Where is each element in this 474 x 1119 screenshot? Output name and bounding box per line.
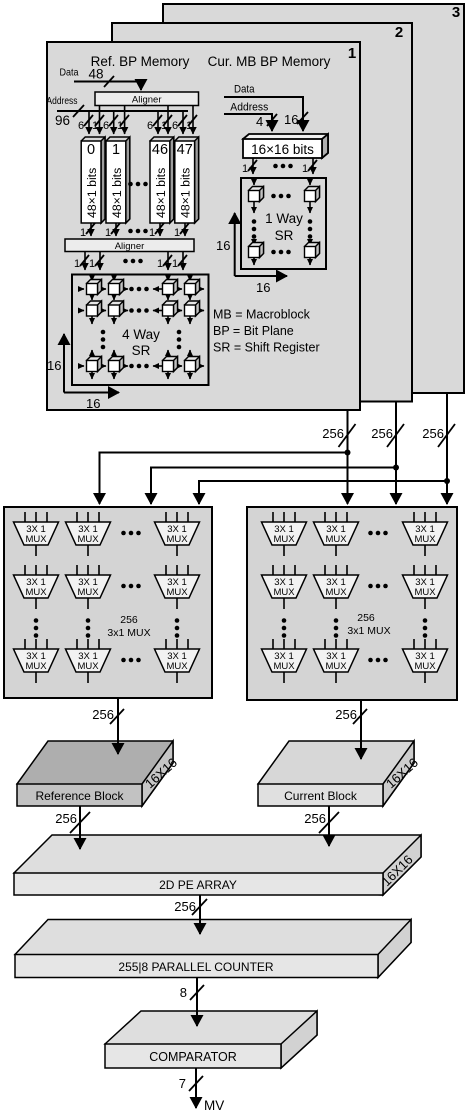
wire address to 16x16 bits [224, 114, 277, 131]
svg-text:1: 1 [117, 120, 123, 132]
svg-text:96: 96 [55, 113, 70, 128]
2D PE ARRAY [14, 835, 421, 895]
COMPARATOR [105, 1011, 317, 1068]
svg-text:SR: SR [275, 228, 294, 243]
wire mem46 out (1) [149, 223, 164, 239]
svg-text:1: 1 [174, 227, 180, 239]
svg-text:1: 1 [302, 163, 308, 175]
SR4 row3 up wires [92, 350, 190, 357]
dots L3 [121, 658, 141, 663]
dots L col2 [86, 618, 91, 638]
memory 16x16 bits [243, 134, 328, 158]
dots SR4 vertical [101, 330, 106, 350]
svg-text:Data: Data [60, 68, 79, 79]
svg-text:2: 2 [395, 24, 403, 41]
svg-text:1: 1 [112, 142, 120, 158]
memory M1 48x1 bits [106, 137, 130, 223]
svg-text:0: 0 [87, 142, 95, 158]
mux L33 [155, 639, 200, 683]
aligner U2 [65, 239, 194, 252]
svg-text:Address: Address [47, 95, 78, 107]
SR4 row1 cubes [87, 280, 200, 295]
dots 16x16 outputs [273, 164, 293, 169]
svg-text:1 Way: 1 Way [265, 211, 303, 226]
svg-text:256: 256 [55, 811, 77, 826]
wire addr to mem0 (6) [78, 111, 93, 134]
wire pe array out 256 [174, 895, 207, 934]
wire addr to mem46 (6) [147, 111, 162, 134]
svg-text:4 Way: 4 Way [122, 327, 160, 342]
svg-text:BP = Bit Plane: BP = Bit Plane [213, 324, 294, 338]
dots between aligner2 outputs [123, 259, 143, 264]
wire aligner2 out a (1) [74, 252, 89, 271]
axis 16 vertical (left SR) [47, 334, 64, 393]
bus panel3 256 [422, 393, 455, 504]
svg-text:1: 1 [157, 258, 163, 270]
dots L2 [121, 584, 141, 589]
wire data to 16x16 bits [224, 97, 308, 131]
wire comparator out 7 to MV [179, 1068, 203, 1108]
svg-text:6: 6 [78, 120, 84, 132]
dots SR1 row1 [271, 194, 291, 199]
svg-text:16: 16 [86, 396, 100, 411]
svg-text:Ref. BP Memory: Ref. BP Memory [91, 54, 190, 69]
svg-text:MB = Macroblock: MB = Macroblock [213, 308, 311, 322]
mux R23 [403, 565, 448, 609]
wire branch bus2 to left mux [151, 468, 396, 505]
junction bus2 [393, 465, 399, 471]
wire addr to mem47 (6) [172, 111, 187, 134]
axis 16 horizontal (left SR) [64, 393, 119, 412]
dots R1 [368, 531, 388, 536]
svg-text:256: 256 [322, 426, 344, 441]
svg-text:1: 1 [149, 227, 155, 239]
wire aligner2 out d (1) [172, 252, 187, 271]
axis 16 horizontal (right SR) [235, 276, 287, 295]
left mux array box [4, 507, 212, 698]
svg-text:1: 1 [161, 120, 167, 132]
Current Block [258, 741, 421, 806]
svg-text:1: 1 [89, 258, 95, 270]
svg-text:6: 6 [172, 120, 178, 132]
svg-text:1: 1 [172, 258, 178, 270]
SR4 row2 down wires [92, 316, 190, 324]
mux L21 [14, 565, 59, 609]
wire aligner to mem0 (1) [92, 106, 104, 135]
wire right mux out 256 [335, 700, 367, 759]
dots between mem outputs [128, 229, 148, 234]
svg-text:48×1 bits: 48×1 bits [85, 168, 99, 218]
1 Way SR box [241, 178, 326, 269]
mux R33 [403, 639, 448, 683]
aligner U1 [95, 92, 199, 106]
svg-text:1: 1 [242, 163, 248, 175]
dots L col1 [34, 618, 39, 638]
svg-text:3: 3 [452, 4, 460, 21]
svg-text:Reference Block: Reference Block [35, 789, 124, 803]
svg-text:3x1 MUX: 3x1 MUX [107, 627, 150, 639]
wire aligner2 out b (1) [89, 252, 104, 271]
svg-text:48: 48 [89, 67, 104, 82]
255|8 PARALLEL COUNTER [15, 920, 411, 978]
svg-text:Aligner: Aligner [115, 241, 145, 252]
dots SR1 row2 [271, 250, 291, 255]
svg-text:46: 46 [152, 142, 168, 158]
SR4 row1 horizontal wires [78, 288, 204, 290]
Reference Block [17, 741, 180, 806]
SR4 row3 down wires [92, 372, 190, 380]
svg-text:Current Block: Current Block [284, 789, 358, 803]
SR4 row3 horizontal wires [78, 365, 204, 367]
svg-text:256: 256 [304, 811, 326, 826]
panel 3 [163, 4, 464, 393]
wire cur block out 256 [304, 806, 339, 846]
svg-text:256: 256 [92, 707, 114, 722]
svg-text:256: 256 [422, 426, 444, 441]
wire aligner to mem1 (1) [117, 106, 129, 135]
wire data to aligner A1 [74, 76, 141, 90]
mux L22 [66, 565, 111, 609]
SR4 row2 horizontal wires [78, 310, 204, 312]
svg-text:1: 1 [105, 227, 111, 239]
svg-text:256: 256 [357, 612, 375, 624]
panel 1 [47, 42, 360, 410]
panel 2 [112, 23, 412, 402]
svg-text:1: 1 [92, 120, 98, 132]
mux R32 [314, 639, 359, 683]
wire aligner to mem47 (1) [186, 106, 197, 135]
dots R3 [368, 658, 388, 663]
wire mem47 out (1) [174, 223, 189, 239]
right mux array box [247, 507, 457, 700]
svg-text:16: 16 [256, 280, 270, 295]
wire aligner to mem46 (1) [161, 106, 172, 135]
wire branch bus1 to left mux [100, 453, 348, 505]
wire aligner2 out c (1) [157, 252, 172, 271]
dots R2 [368, 584, 388, 589]
legend MB BP SR [213, 308, 320, 355]
SR1 row2 feed wires [254, 240, 310, 245]
mux L23 [155, 565, 200, 609]
dots SR1 vertical [252, 219, 257, 239]
svg-text:16: 16 [47, 358, 61, 373]
svg-text:6: 6 [147, 120, 153, 132]
mux L12 [66, 512, 111, 556]
svg-text:1: 1 [80, 227, 86, 239]
mux R22 [314, 565, 359, 609]
memory M47 48x1 bits [175, 137, 199, 223]
svg-text:SR: SR [132, 343, 151, 358]
wire mem0 out (1) [80, 223, 95, 239]
svg-text:48×1 bits: 48×1 bits [179, 168, 193, 218]
memory M46 48x1 bits [150, 137, 174, 223]
dots L1 [121, 531, 141, 536]
svg-text:MV: MV [204, 1098, 224, 1113]
SR1 feed wires [254, 178, 310, 185]
dots SR4 row2 [129, 308, 149, 313]
4 Way SR box [72, 275, 209, 386]
mux L32 [66, 639, 111, 683]
svg-text:1: 1 [74, 258, 80, 270]
wire mem1 out (1) [105, 223, 120, 239]
wire counter out 8 [180, 978, 204, 1027]
svg-text:SR = Shift Register: SR = Shift Register [213, 341, 320, 355]
junction bus1 [345, 450, 351, 456]
SR4 row1-2 vertical wires [92, 295, 190, 301]
bus panel2 256 [371, 402, 404, 505]
svg-text:4: 4 [256, 114, 263, 129]
svg-text:16×16 bits: 16×16 bits [251, 142, 314, 157]
dots R col3 [423, 618, 428, 638]
mux L11 [14, 512, 59, 556]
svg-text:256: 256 [335, 707, 357, 722]
wire address bus [57, 105, 188, 117]
svg-text:Cur. MB BP Memory: Cur. MB BP Memory [208, 54, 331, 69]
SR1 row2 down wires [254, 258, 310, 266]
dots R col1 [282, 618, 287, 638]
svg-text:Data: Data [234, 84, 255, 96]
memory M0 48x1 bits [81, 137, 105, 223]
wire left mux out 256 [92, 698, 124, 754]
SR1 row2 cubes [249, 243, 320, 258]
svg-text:6: 6 [103, 120, 109, 132]
mux R13 [403, 512, 448, 556]
svg-text:256: 256 [120, 614, 138, 626]
svg-text:7: 7 [179, 1076, 186, 1091]
svg-text:Aligner: Aligner [132, 95, 162, 106]
SR1 row1 cubes [249, 187, 320, 202]
svg-text:1: 1 [186, 120, 192, 132]
svg-text:2D PE ARRAY: 2D PE ARRAY [159, 878, 237, 892]
mux R11 [262, 512, 307, 556]
SR4 row2 cubes [87, 301, 200, 316]
wire 16x16 out a (1) [242, 158, 257, 175]
svg-text:16: 16 [284, 112, 298, 127]
svg-text:1: 1 [348, 45, 356, 62]
bus panel1 256 [322, 410, 355, 504]
dots L col3 [175, 618, 180, 638]
svg-text:8: 8 [180, 985, 187, 1000]
SR4 row3 cubes [87, 357, 200, 372]
SR4 row1 feed wires [92, 275, 190, 282]
dots SR4 row3 [129, 364, 149, 369]
svg-text:Address: Address [230, 102, 268, 114]
svg-text:256: 256 [174, 899, 196, 914]
wire branch bus3 to left mux [199, 481, 447, 504]
wire 16x16 out b (1) [302, 158, 317, 175]
svg-text:256: 256 [371, 426, 393, 441]
svg-text:3x1 MUX: 3x1 MUX [347, 625, 390, 637]
mux L13 [155, 512, 200, 556]
svg-text:255|8 PARALLEL COUNTER: 255|8 PARALLEL COUNTER [118, 960, 274, 974]
svg-text:16: 16 [216, 238, 230, 253]
mux L31 [14, 639, 59, 683]
dots SR4 row1 [129, 287, 149, 292]
dots between memories [128, 182, 148, 187]
label 256 3x1 MUX (left) [107, 614, 150, 639]
svg-text:48×1 bits: 48×1 bits [110, 168, 124, 218]
mux R21 [262, 565, 307, 609]
dots R col2 [334, 618, 339, 638]
svg-text:47: 47 [177, 142, 193, 158]
svg-text:COMPARATOR: COMPARATOR [149, 1050, 237, 1064]
mux R12 [314, 512, 359, 556]
mux R31 [262, 639, 307, 683]
svg-text:48×1 bits: 48×1 bits [154, 168, 168, 218]
axis 16 vertical (right SR) [216, 213, 235, 276]
wire ref block out 256 [55, 806, 90, 849]
SR1 row1 down wires [254, 202, 310, 214]
wire addr to mem1 (6) [103, 111, 118, 134]
label 256 3x1 MUX (right) [347, 612, 390, 637]
junction bus3 [444, 478, 450, 484]
